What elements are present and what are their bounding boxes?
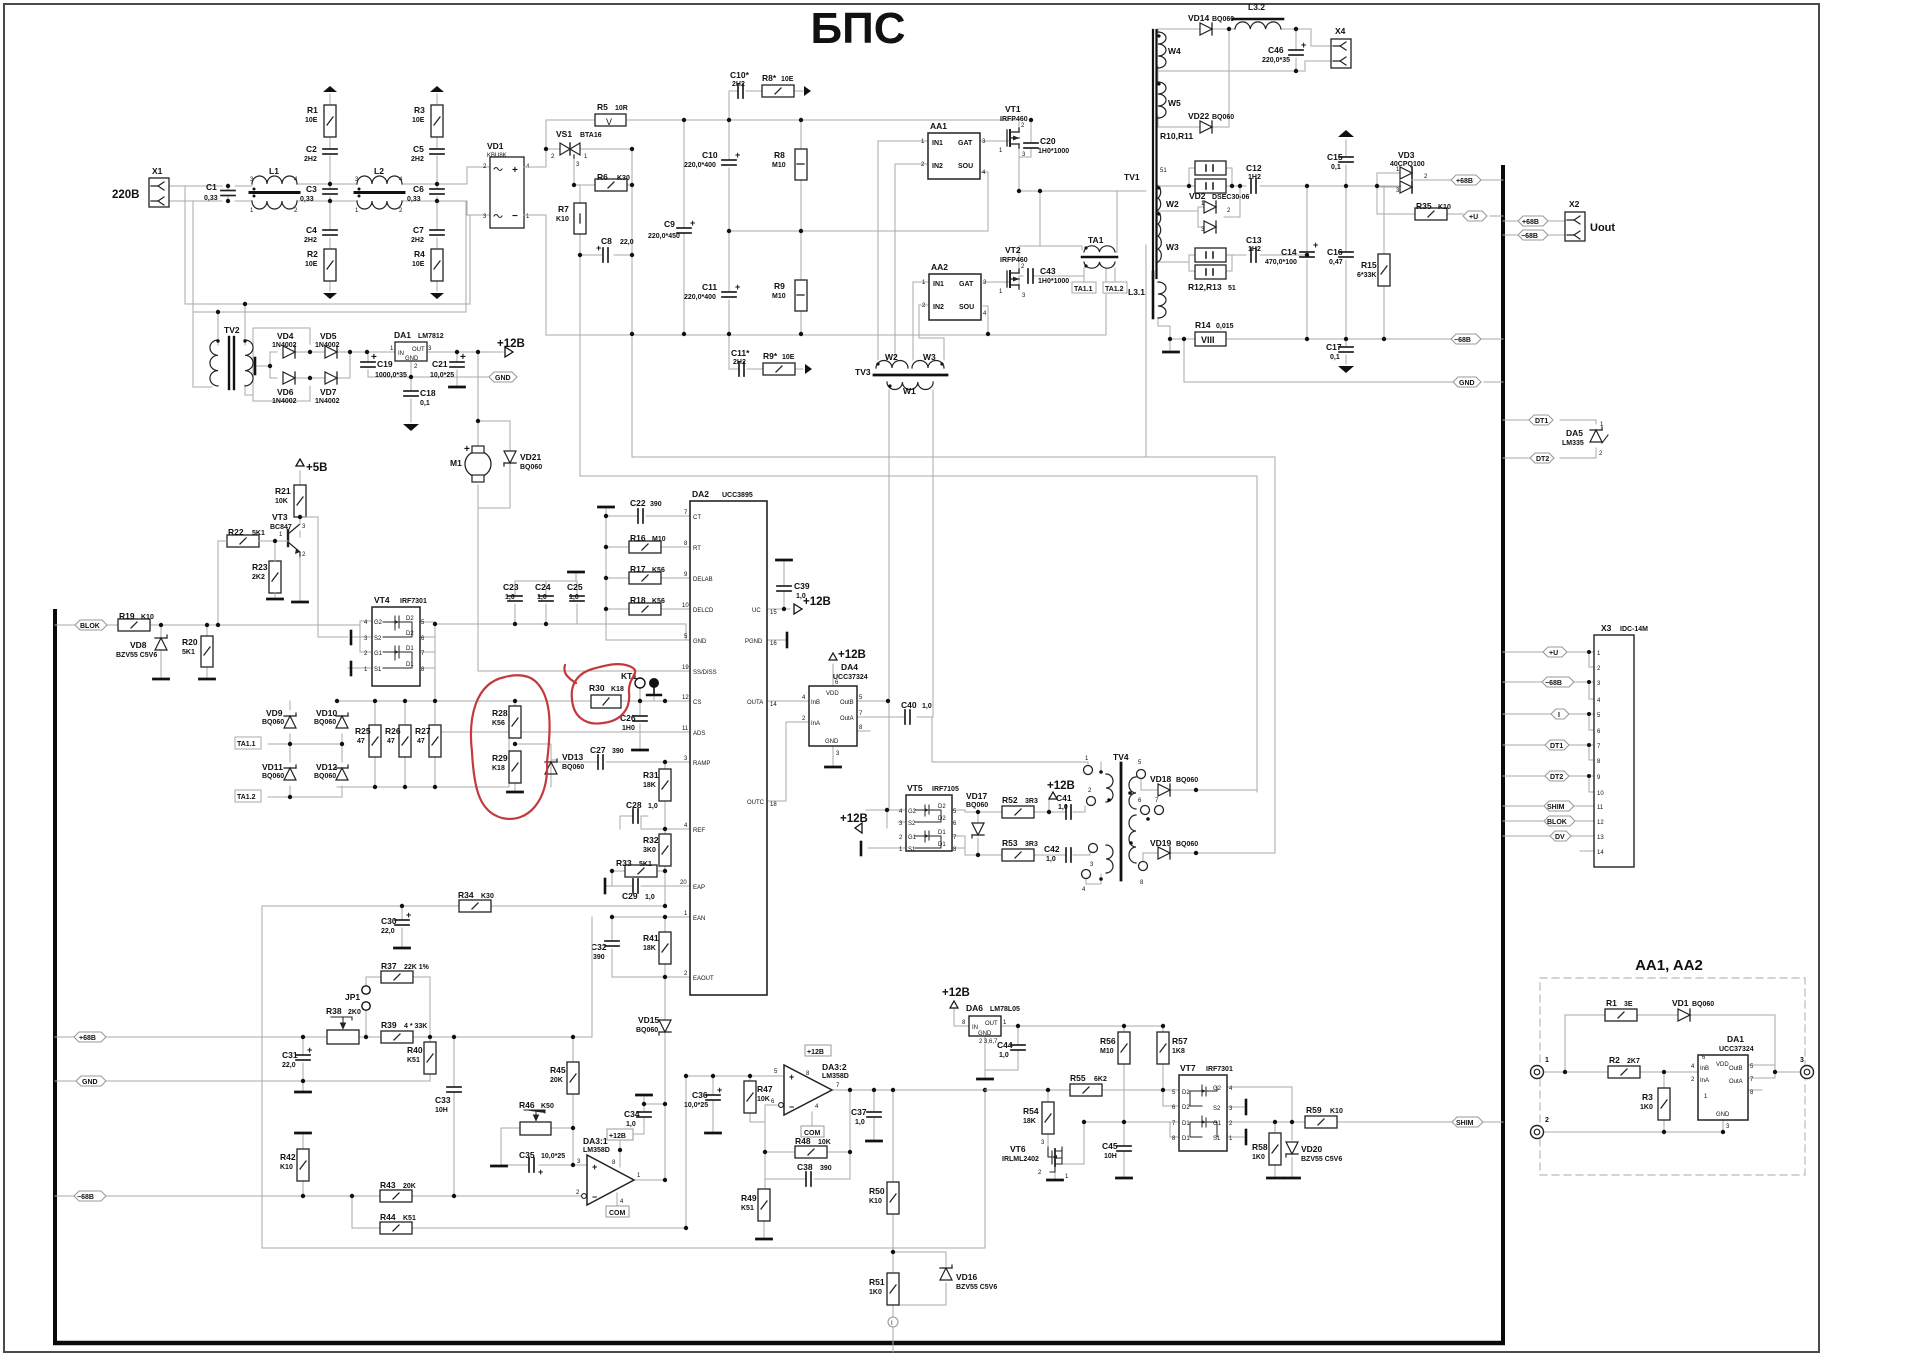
- +12B tag TV4: [1047, 780, 1075, 799]
- svg-text:C25: C25: [567, 582, 583, 592]
- svg-text:−: −: [592, 1192, 597, 1202]
- wire: C33 column: [453, 1037, 455, 1196]
- svg-text:X2: X2: [1569, 199, 1580, 209]
- svg-text:TV4: TV4: [1113, 752, 1129, 762]
- svg-text:GND: GND: [82, 1079, 98, 1086]
- ground bars VT3: [268, 598, 283, 600]
- capacitor C5: [411, 144, 444, 163]
- svg-text:IN1: IN1: [932, 140, 943, 147]
- svg-text:VT2: VT2: [1005, 245, 1021, 255]
- svg-text:C18: C18: [420, 388, 436, 398]
- svg-text:VD15: VD15: [638, 1015, 660, 1025]
- ground bar VT6: [1048, 1179, 1063, 1181]
- opamp DA3:2: [771, 1062, 849, 1115]
- svg-text:VD1: VD1: [487, 141, 504, 151]
- wire: SS/DISS from M1: [478, 670, 690, 672]
- inset resistor R1: [1605, 998, 1637, 1021]
- wire: DA4 VDD: [832, 664, 834, 686]
- svg-text:C16: C16: [1327, 247, 1343, 257]
- svg-text:VD10: VD10: [316, 708, 338, 718]
- wire: AA1 inputs from TV3 W2: [878, 141, 928, 360]
- junction dots X3: [1587, 650, 1591, 778]
- svg-text:C17: C17: [1326, 342, 1342, 352]
- svg-text:M10: M10: [772, 293, 786, 300]
- svg-text:IN2: IN2: [933, 304, 944, 311]
- resistor R2: [305, 249, 336, 281]
- capacitor C41: [1056, 793, 1072, 819]
- svg-text:BQ060: BQ060: [636, 1027, 658, 1034]
- capacitor C44: [997, 1040, 1025, 1059]
- svg-text:SS/DISS: SS/DISS: [693, 670, 717, 676]
- svg-text:13: 13: [1597, 835, 1604, 841]
- svg-text:R8*: R8*: [762, 73, 777, 83]
- svg-text:0,47: 0,47: [1329, 259, 1343, 266]
- svg-text:C39: C39: [794, 581, 810, 591]
- output bus thick bar: [1501, 165, 1505, 1343]
- transformer TV2: [210, 325, 255, 389]
- svg-text:−68B: −68B: [1521, 233, 1538, 240]
- svg-text:DA5: DA5: [1566, 428, 1583, 438]
- svg-text:R58: R58: [1252, 1142, 1268, 1152]
- svg-text:VD22: VD22: [1188, 111, 1210, 121]
- wire: R37 JP1: [366, 977, 430, 1037]
- wire: R22 down to BLOK: [217, 541, 219, 625]
- svg-text:10E: 10E: [305, 261, 318, 268]
- capacitor C35: [519, 1150, 565, 1177]
- capacitor C4: [304, 225, 337, 244]
- svg-text:TA1.1: TA1.1: [1074, 286, 1093, 293]
- tag +68B left: [74, 1032, 106, 1042]
- svg-text:14: 14: [770, 702, 777, 708]
- svg-text:R9: R9: [774, 281, 785, 291]
- svg-text:R23: R23: [252, 562, 268, 572]
- wire: mid rail: [729, 172, 988, 231]
- junction dots TV1 area: [1017, 27, 1386, 341]
- svg-text:C30: C30: [381, 916, 397, 926]
- wire: W3 bottom to snubber R12R13 C13: [1158, 255, 1246, 271]
- svg-text:K56: K56: [652, 598, 665, 605]
- svg-text:22K 1%: 22K 1%: [404, 964, 430, 971]
- capacitor C22: [630, 498, 662, 523]
- ground bar C31: [296, 1091, 311, 1093]
- svg-text:VT4: VT4: [374, 595, 390, 605]
- svg-text:VD14: VD14: [1188, 13, 1210, 23]
- connector X2: [1565, 199, 1615, 241]
- winding W4: [1157, 32, 1181, 68]
- svg-text:R50: R50: [869, 1186, 885, 1196]
- svg-text:+12B: +12B: [807, 1049, 824, 1056]
- svg-text:Uout: Uout: [1590, 222, 1615, 234]
- svg-text:R3: R3: [1642, 1092, 1653, 1102]
- ground bar above C25: [569, 571, 584, 573]
- wire: R18: [606, 608, 690, 610]
- svg-text:1,0: 1,0: [626, 1121, 636, 1128]
- wire: R54 column VT6: [1048, 1090, 1055, 1178]
- svg-text:D1: D1: [938, 830, 946, 836]
- svg-text:+: +: [789, 1072, 794, 1082]
- svg-text:10E: 10E: [412, 261, 425, 268]
- svg-text:16: 16: [770, 641, 777, 647]
- jumper JP1: [345, 986, 370, 1010]
- svg-text:+12B: +12B: [942, 987, 970, 999]
- svg-text:220,0*400: 220,0*400: [684, 294, 716, 301]
- svg-text:1N4002: 1N4002: [272, 342, 297, 349]
- svg-text:D1: D1: [1182, 1136, 1190, 1142]
- capacitor C9: [648, 218, 695, 240]
- svg-text:C35: C35: [519, 1150, 535, 1160]
- inductor L3.2: [1233, 2, 1283, 29]
- svg-text:VT7: VT7: [1180, 1063, 1196, 1073]
- diode VD14: [1188, 13, 1234, 35]
- svg-text:LM78L05: LM78L05: [990, 1006, 1020, 1013]
- capacitor C18: [404, 388, 436, 407]
- wire: DA6 out rail: [985, 1026, 1163, 1077]
- svg-text:C33: C33: [435, 1095, 451, 1105]
- wire: AA2 inputs from TV3 W3: [913, 282, 944, 360]
- resistor R8: [772, 149, 807, 180]
- resistor R25: [355, 725, 381, 757]
- junction dots BLOK: [159, 515, 302, 627]
- tag BLOK left: [75, 620, 107, 630]
- wire: X3 pin14 stub: [1580, 850, 1594, 852]
- svg-text:1,0: 1,0: [999, 1052, 1009, 1059]
- svg-text:M10: M10: [772, 162, 786, 169]
- wire: DA3:2 inputs: [713, 1076, 850, 1189]
- potentiometer R38: [326, 1006, 361, 1044]
- svg-text:VS1: VS1: [556, 129, 572, 139]
- svg-text:12: 12: [682, 695, 689, 701]
- svg-text:K18: K18: [492, 765, 505, 772]
- svg-text:BQ060: BQ060: [314, 773, 336, 780]
- svg-text:LM358D: LM358D: [822, 1073, 849, 1080]
- ground bar DA6: [978, 1078, 993, 1080]
- svg-text:1,0: 1,0: [505, 594, 515, 601]
- svg-text:+: +: [1313, 240, 1318, 250]
- svg-text:C34: C34: [624, 1109, 640, 1119]
- capacitor C10: [684, 150, 740, 169]
- capacitor C16: [1327, 247, 1353, 266]
- wire: R46 C35: [501, 1128, 587, 1165]
- svg-text:2H2: 2H2: [304, 156, 317, 163]
- wire: R25R26R27 columns: [375, 701, 435, 787]
- capacitor C12: [1246, 163, 1262, 193]
- wire: DA4 OutB: [857, 700, 889, 702]
- capacitor C45: [1102, 1141, 1131, 1160]
- dual mosfet VT4: [364, 595, 427, 686]
- wire: UC C39: [767, 562, 790, 609]
- dual mosfet VT7: [1172, 1063, 1233, 1151]
- svg-text:BQ060: BQ060: [262, 719, 284, 726]
- svg-text:TA1: TA1: [1088, 235, 1104, 245]
- svg-text:VD20: VD20: [1301, 1144, 1323, 1154]
- wire: R53 to C42 TV4 p3: [1034, 851, 1090, 855]
- svg-text:+: +: [1301, 40, 1306, 50]
- wire: filter column C5C6C7: [436, 94, 438, 291]
- wire: +12V out of DA1: [427, 351, 503, 353]
- svg-text:PGND: PGND: [745, 639, 763, 645]
- svg-text:K10: K10: [1330, 1108, 1343, 1115]
- svg-text:IRFP460: IRFP460: [1000, 257, 1028, 264]
- svg-text:+68B: +68B: [79, 1035, 96, 1042]
- inset resistor R3: [1640, 1088, 1670, 1120]
- bar VT7 S1: [1245, 1130, 1248, 1144]
- wire: snubber C11*R9*: [729, 334, 803, 369]
- svg-text:K51: K51: [407, 1057, 420, 1064]
- wire: R41 bottom EAOUT: [612, 964, 690, 1020]
- svg-text:IN: IN: [398, 351, 404, 357]
- wire: R49 bottom: [763, 1221, 765, 1237]
- svg-text:RT: RT: [693, 546, 701, 552]
- svg-text:+68B: +68B: [1522, 219, 1539, 226]
- transformer TV4: [1082, 752, 1164, 893]
- svg-text:BZV55 C5V6: BZV55 C5V6: [1301, 1156, 1342, 1163]
- tag +U: [1463, 211, 1487, 221]
- svg-text:D1: D1: [406, 662, 414, 668]
- resistor R3: [412, 105, 443, 137]
- svg-text:2H2: 2H2: [411, 237, 424, 244]
- svg-text:C36: C36: [692, 1090, 708, 1100]
- wire: W5 top: [1157, 71, 1159, 82]
- svg-text:W4: W4: [1168, 46, 1181, 56]
- svg-text:+12B: +12B: [803, 596, 831, 608]
- svg-text:R30: R30: [589, 683, 605, 693]
- svg-text:R28: R28: [492, 708, 508, 718]
- diode VD6: [272, 372, 297, 405]
- wire: KT1 stem: [639, 689, 641, 701]
- capacitor C14: [1265, 240, 1318, 266]
- capacitor C20: [1024, 136, 1069, 155]
- wires VT3 area: [218, 517, 300, 625]
- svg-text:2K2: 2K2: [252, 574, 265, 581]
- wire: C30 column: [401, 906, 403, 946]
- svg-text:1,0: 1,0: [922, 703, 932, 710]
- svg-text:R51: R51: [869, 1277, 885, 1287]
- bar S2: [350, 631, 353, 644]
- wire: bridge routing box: [253, 328, 310, 401]
- wire: R52 to TV4 p2: [1034, 806, 1085, 812]
- svg-text:VD5: VD5: [320, 331, 337, 341]
- svg-text:DT2: DT2: [1550, 774, 1563, 781]
- svg-text:OUTA: OUTA: [747, 700, 763, 706]
- wire: VS1 row: [546, 148, 632, 150]
- svg-text:10R: 10R: [615, 105, 628, 112]
- wire: +5B to R21: [299, 471, 301, 537]
- wire: VD18 row: [1141, 778, 1257, 790]
- wire: DA3:2 output row: [832, 1089, 985, 1091]
- svg-text:GAT: GAT: [958, 140, 973, 147]
- svg-text:R15: R15: [1361, 260, 1377, 270]
- svg-text:R40: R40: [407, 1045, 423, 1055]
- resistor R8* snubber: [762, 73, 794, 97]
- capacitor C39: [777, 581, 810, 600]
- wire: C19 column: [367, 352, 369, 377]
- svg-text:VD1: VD1: [1672, 998, 1689, 1008]
- sensor DA5: [1562, 422, 1608, 457]
- svg-text:R48: R48: [795, 1136, 811, 1146]
- svg-text:GAT: GAT: [959, 281, 974, 288]
- svg-text:+5B: +5B: [306, 462, 327, 474]
- capacitor C42: [1044, 844, 1071, 863]
- svg-text:1H0: 1H0: [622, 725, 635, 732]
- triac VS1: [551, 129, 602, 168]
- svg-text:VD13: VD13: [562, 752, 584, 762]
- arrow marker R8*: [804, 86, 811, 96]
- wire: gnd rail TV2 aux: [368, 352, 489, 422]
- junction dots feedback: [301, 904, 987, 1254]
- resistor R21: [275, 485, 306, 517]
- svg-text:1N4002: 1N4002: [315, 398, 340, 405]
- svg-text:DA4: DA4: [841, 662, 858, 672]
- svg-text:22,0: 22,0: [620, 239, 634, 246]
- svg-text:C44: C44: [997, 1040, 1013, 1050]
- wire: VT4 D pins column: [420, 622, 435, 701]
- capacitor C31: [282, 1045, 312, 1069]
- svg-text:+U: +U: [1469, 214, 1478, 221]
- wire: W4 to VD14: [1158, 29, 1200, 34]
- wire: VT2 source to C43 TA1: [1019, 268, 1115, 285]
- wire: R28 top: [514, 701, 516, 706]
- svg-text:220B: 220B: [112, 189, 140, 201]
- capacitor C26: [620, 713, 647, 732]
- svg-text:C15: C15: [1327, 152, 1343, 162]
- snubber R11 box: [1195, 179, 1226, 193]
- svg-text:G2: G2: [908, 809, 917, 815]
- tag DT2: [1530, 453, 1554, 463]
- wire: VT1 source to W1 and C20 branch: [1019, 120, 1146, 250]
- svg-text:10: 10: [682, 603, 689, 609]
- motor M1: [450, 444, 491, 482]
- svg-text:C43: C43: [1040, 266, 1056, 276]
- svg-text:20K: 20K: [550, 1077, 563, 1084]
- ground bar DA4: [826, 766, 841, 768]
- svg-text:2K7: 2K7: [1627, 1058, 1640, 1065]
- wire: R44 branch: [352, 1076, 784, 1228]
- svg-text:BC847: BC847: [270, 524, 292, 531]
- junction dot R22/R23: [273, 539, 277, 543]
- svg-text:BZV55 C5V6: BZV55 C5V6: [116, 652, 157, 659]
- wire: X3 +U: [1503, 652, 1594, 667]
- capacitor C38: [797, 1162, 832, 1186]
- svg-text:BQ060: BQ060: [562, 764, 584, 771]
- svg-text:OutB: OutB: [1729, 1066, 1743, 1072]
- svg-text:+: +: [460, 352, 466, 363]
- svg-text:VD6: VD6: [277, 387, 294, 397]
- svg-text:TA1.2: TA1.2: [1105, 286, 1124, 293]
- wire: G1 row to R59: [1227, 1121, 1503, 1123]
- svg-text:+: +: [307, 1045, 312, 1055]
- svg-text:+: +: [717, 1085, 722, 1095]
- wire: VD22 up to L3.2 input: [1212, 29, 1229, 127]
- svg-text:R12,R13: R12,R13: [1188, 282, 1222, 292]
- svg-text:SOU: SOU: [958, 163, 973, 170]
- svg-text:EAP: EAP: [693, 885, 705, 891]
- zener VD16: [940, 1265, 997, 1291]
- resistor R22: [227, 527, 265, 547]
- red marker blob around R30: [564, 664, 635, 723]
- tag SHIM: [1452, 1117, 1483, 1127]
- svg-text:−68B: −68B: [1545, 680, 1562, 687]
- +12B arrow tag aux: [497, 338, 525, 357]
- wire: L3.2 to C46 X4: [1281, 29, 1331, 50]
- resistor R56: [1100, 1032, 1130, 1064]
- svg-text:G2: G2: [374, 620, 383, 626]
- connector X1: [149, 166, 169, 207]
- test point KT1: [621, 671, 661, 695]
- svg-text:BQ060: BQ060: [262, 773, 284, 780]
- svg-text:1K0: 1K0: [1640, 1104, 1653, 1111]
- svg-text:ADS: ADS: [693, 731, 705, 737]
- svg-text:IDC-14M: IDC-14M: [1620, 626, 1648, 633]
- capacitor C37: [851, 1107, 881, 1126]
- svg-text:InB: InB: [811, 700, 820, 706]
- resistor R26: [385, 725, 411, 757]
- svg-text:R7: R7: [558, 204, 569, 214]
- svg-text:W1: W1: [903, 386, 916, 396]
- ground above R1: [323, 86, 337, 92]
- bar S1: [350, 662, 353, 675]
- diode VD5: [315, 331, 340, 358]
- wire: R7 column: [580, 185, 632, 255]
- inset junction dots: [1563, 1070, 1777, 1134]
- svg-text:1,0: 1,0: [648, 803, 658, 810]
- svg-text:19: 19: [682, 665, 689, 671]
- svg-text:L3.1: L3.1: [1128, 287, 1145, 297]
- svg-text:3R3: 3R3: [1025, 798, 1038, 805]
- resistor R30: [589, 683, 624, 708]
- svg-text:+: +: [406, 910, 411, 920]
- svg-text:0,1: 0,1: [1330, 354, 1340, 361]
- svg-text:K51: K51: [741, 1205, 754, 1212]
- svg-text:SOU: SOU: [959, 304, 974, 311]
- wire: VD20 column: [1291, 1122, 1293, 1176]
- svg-text:IRFP460: IRFP460: [1000, 116, 1028, 123]
- wire: R29 bottom gnd: [514, 781, 516, 790]
- svg-text:2H2: 2H2: [411, 156, 424, 163]
- svg-text:SHIM: SHIM: [1456, 1120, 1474, 1127]
- wire: VT5 D1 to R53: [952, 836, 1002, 855]
- svg-text:0,1: 0,1: [1331, 164, 1341, 171]
- svg-text:10H: 10H: [1104, 1153, 1117, 1160]
- svg-text:10,0*25: 10,0*25: [430, 372, 454, 379]
- wire: R7C8 node down loop to TV1 W1: [580, 255, 1257, 792]
- svg-text:COM: COM: [609, 1210, 626, 1217]
- svg-text:TA1.1: TA1.1: [237, 741, 256, 748]
- inset terminal 3: [1800, 1057, 1814, 1079]
- wire: R58 column: [1274, 1122, 1276, 1176]
- svg-text:C37: C37: [851, 1107, 867, 1117]
- wire: C13 to C14: [1260, 254, 1307, 256]
- svg-text:0,33: 0,33: [407, 196, 421, 203]
- wire: L3.1 to R14: [1158, 318, 1195, 350]
- zener VD8: [116, 635, 167, 659]
- svg-text:R10,R11: R10,R11: [1160, 131, 1193, 141]
- svg-text:IRF7105: IRF7105: [932, 786, 959, 793]
- wire: DA4 pin8 stub: [857, 730, 870, 732]
- capacitor C7: [411, 225, 444, 244]
- svg-text:390: 390: [650, 501, 662, 508]
- capacitor C30: [381, 910, 411, 935]
- svg-text:DT1: DT1: [1535, 418, 1548, 425]
- svg-text:1N4002: 1N4002: [272, 398, 297, 405]
- capacitor C11* snubber: [731, 348, 750, 376]
- resistor R31: [643, 769, 671, 801]
- svg-text:R47: R47: [757, 1084, 773, 1094]
- ground bar R58: [1268, 1177, 1283, 1179]
- svg-text:VDD: VDD: [826, 691, 839, 697]
- wire: C10 column: [728, 120, 730, 334]
- svg-text:R44: R44: [380, 1212, 396, 1222]
- svg-text:C32: C32: [591, 942, 607, 952]
